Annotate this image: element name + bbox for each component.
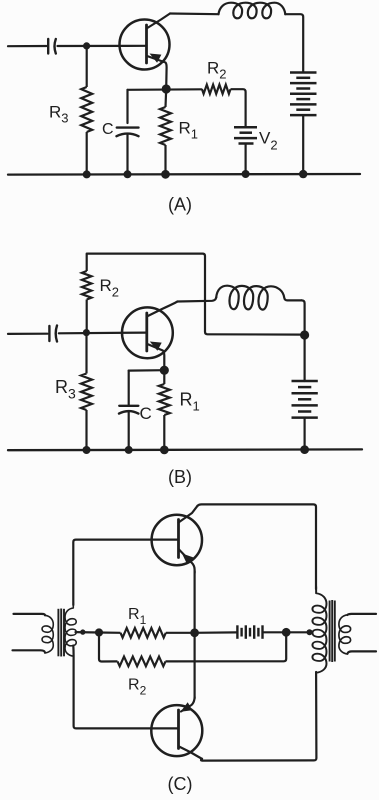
resistor R1 (C) bbox=[99, 628, 195, 638]
wire battery to ground rail (B) bbox=[304, 418, 306, 450]
wire output lead bottom (C) bbox=[348, 651, 377, 653]
battery V2 bias (A) bbox=[234, 127, 257, 143]
wire primary bottom to collector Q2 (C) bbox=[201, 672, 316, 761]
capacitor C bypass (A) bbox=[117, 90, 139, 175]
transistor Q1 top (C) bbox=[152, 506, 202, 573]
svg-text:R2: R2 bbox=[128, 677, 147, 698]
svg-text:(B): (B) bbox=[168, 467, 192, 487]
wire center tap T1 (C) bbox=[76, 631, 100, 634]
ground rail (B) bbox=[8, 448, 362, 451]
wire base (A) bbox=[58, 45, 147, 47]
wire battery to right junction (C) bbox=[263, 631, 310, 633]
wire output lead top (C) bbox=[347, 614, 376, 615]
capacitor C bypass (B) bbox=[119, 371, 138, 450]
transformer T1 primary winding (C) bbox=[42, 615, 53, 653]
node rail junction C (B) bbox=[125, 446, 133, 454]
node rail junction R1 (B) bbox=[160, 446, 169, 455]
wire coil to battery (A) bbox=[285, 14, 303, 71]
node base junction (B) bbox=[83, 329, 90, 336]
resistor R2 (C) bbox=[99, 632, 286, 666]
node right junction (C) bbox=[282, 628, 291, 637]
wire battery to ground rail (A) bbox=[302, 115, 304, 174]
wire junction to battery (C) bbox=[195, 631, 237, 634]
wire input lead bottom (C) bbox=[13, 650, 46, 652]
capacitor input coupling (A) bbox=[48, 39, 56, 54]
transistor Q1 (A) bbox=[120, 14, 171, 89]
svg-text:(A): (A) bbox=[168, 195, 192, 215]
svg-text:R2: R2 bbox=[207, 59, 227, 82]
node rail junction V2 (A) bbox=[242, 170, 250, 178]
node center tap junction (C) bbox=[95, 628, 103, 636]
svg-text:R1: R1 bbox=[180, 390, 200, 414]
wire input lead top (C) bbox=[14, 614, 46, 615]
wire emitter row (B) bbox=[129, 369, 165, 372]
wire tank to junction (B) bbox=[302, 300, 305, 334]
inductor tank coil (B) bbox=[216, 286, 301, 310]
wire collector to tank (B) bbox=[178, 298, 217, 302]
wire collector to top rail (A) bbox=[170, 12, 219, 15]
node center tap blob T2 (C) bbox=[307, 629, 313, 635]
capacitor input coupling (B) bbox=[49, 326, 57, 342]
node emitter bus junction (C) bbox=[190, 628, 199, 637]
battery B1 supply (A) bbox=[290, 73, 317, 116]
svg-text:V2: V2 bbox=[259, 129, 278, 153]
wire junction to battery (B) bbox=[304, 335, 306, 381]
transformer T2 primary winding (C) bbox=[312, 587, 326, 673]
wire top rail (B) bbox=[87, 254, 305, 335]
svg-text:R1: R1 bbox=[179, 119, 199, 142]
node base junction (A) bbox=[83, 42, 90, 49]
svg-text:C: C bbox=[102, 121, 114, 138]
node emitter junction (A) bbox=[162, 84, 171, 93]
svg-text:C: C bbox=[140, 404, 152, 423]
wire input signal (A) bbox=[8, 45, 47, 47]
node rail junction C (A) bbox=[124, 170, 132, 178]
resistor R3 (A) bbox=[81, 46, 92, 174]
transformer T2 secondary winding (C) bbox=[339, 615, 351, 654]
wire top rail collector Q1 (C) bbox=[198, 504, 317, 589]
node emitter junction (B) bbox=[160, 366, 169, 375]
resistor R1 (A) bbox=[160, 89, 171, 174]
node center tap blob T1 (C) bbox=[80, 629, 85, 634]
wire secondary top to base Q1 (C) bbox=[73, 540, 178, 605]
node rail junction battery (B) bbox=[300, 445, 309, 454]
wire V2 to ground rail (A) bbox=[245, 144, 247, 174]
transistor Q1 (B) bbox=[122, 302, 178, 371]
node rail junction R1 (A) bbox=[161, 170, 170, 179]
node rail junction R3 (A) bbox=[83, 170, 91, 178]
battery B1 (C) bbox=[237, 625, 262, 639]
transformer T2 core (C) bbox=[330, 600, 335, 662]
ground rail (A) bbox=[8, 173, 360, 176]
node tank junction (B) bbox=[300, 330, 309, 339]
battery B1 supply (B) bbox=[292, 381, 318, 418]
svg-text:(C): (C) bbox=[168, 774, 193, 794]
svg-text:R3: R3 bbox=[49, 103, 69, 126]
wire secondary bottom to base Q2 (C) bbox=[73, 646, 178, 729]
transistor Q2 bottom (C) bbox=[151, 697, 202, 759]
svg-text:R1: R1 bbox=[128, 606, 147, 627]
node rail junction R3 (B) bbox=[83, 446, 91, 454]
wire emitter bus (C) bbox=[194, 571, 196, 699]
resistor R3 (B) bbox=[81, 333, 92, 450]
resistor R1 (B) bbox=[159, 370, 170, 450]
node rail junction battery (A) bbox=[299, 170, 307, 178]
transformer T1 core (C) bbox=[58, 609, 64, 657]
svg-text:R2: R2 bbox=[100, 276, 120, 300]
wire base (B) bbox=[59, 332, 147, 335]
svg-text:R3: R3 bbox=[55, 377, 76, 402]
inductor tank coil (A) bbox=[219, 3, 286, 19]
resistor R2 (A) bbox=[202, 85, 246, 127]
resistor R2 (B) bbox=[82, 254, 92, 333]
wire emitter row (A) bbox=[128, 88, 202, 91]
transformer T1 secondary winding (C) bbox=[65, 602, 76, 656]
wire input signal (B) bbox=[8, 333, 48, 335]
